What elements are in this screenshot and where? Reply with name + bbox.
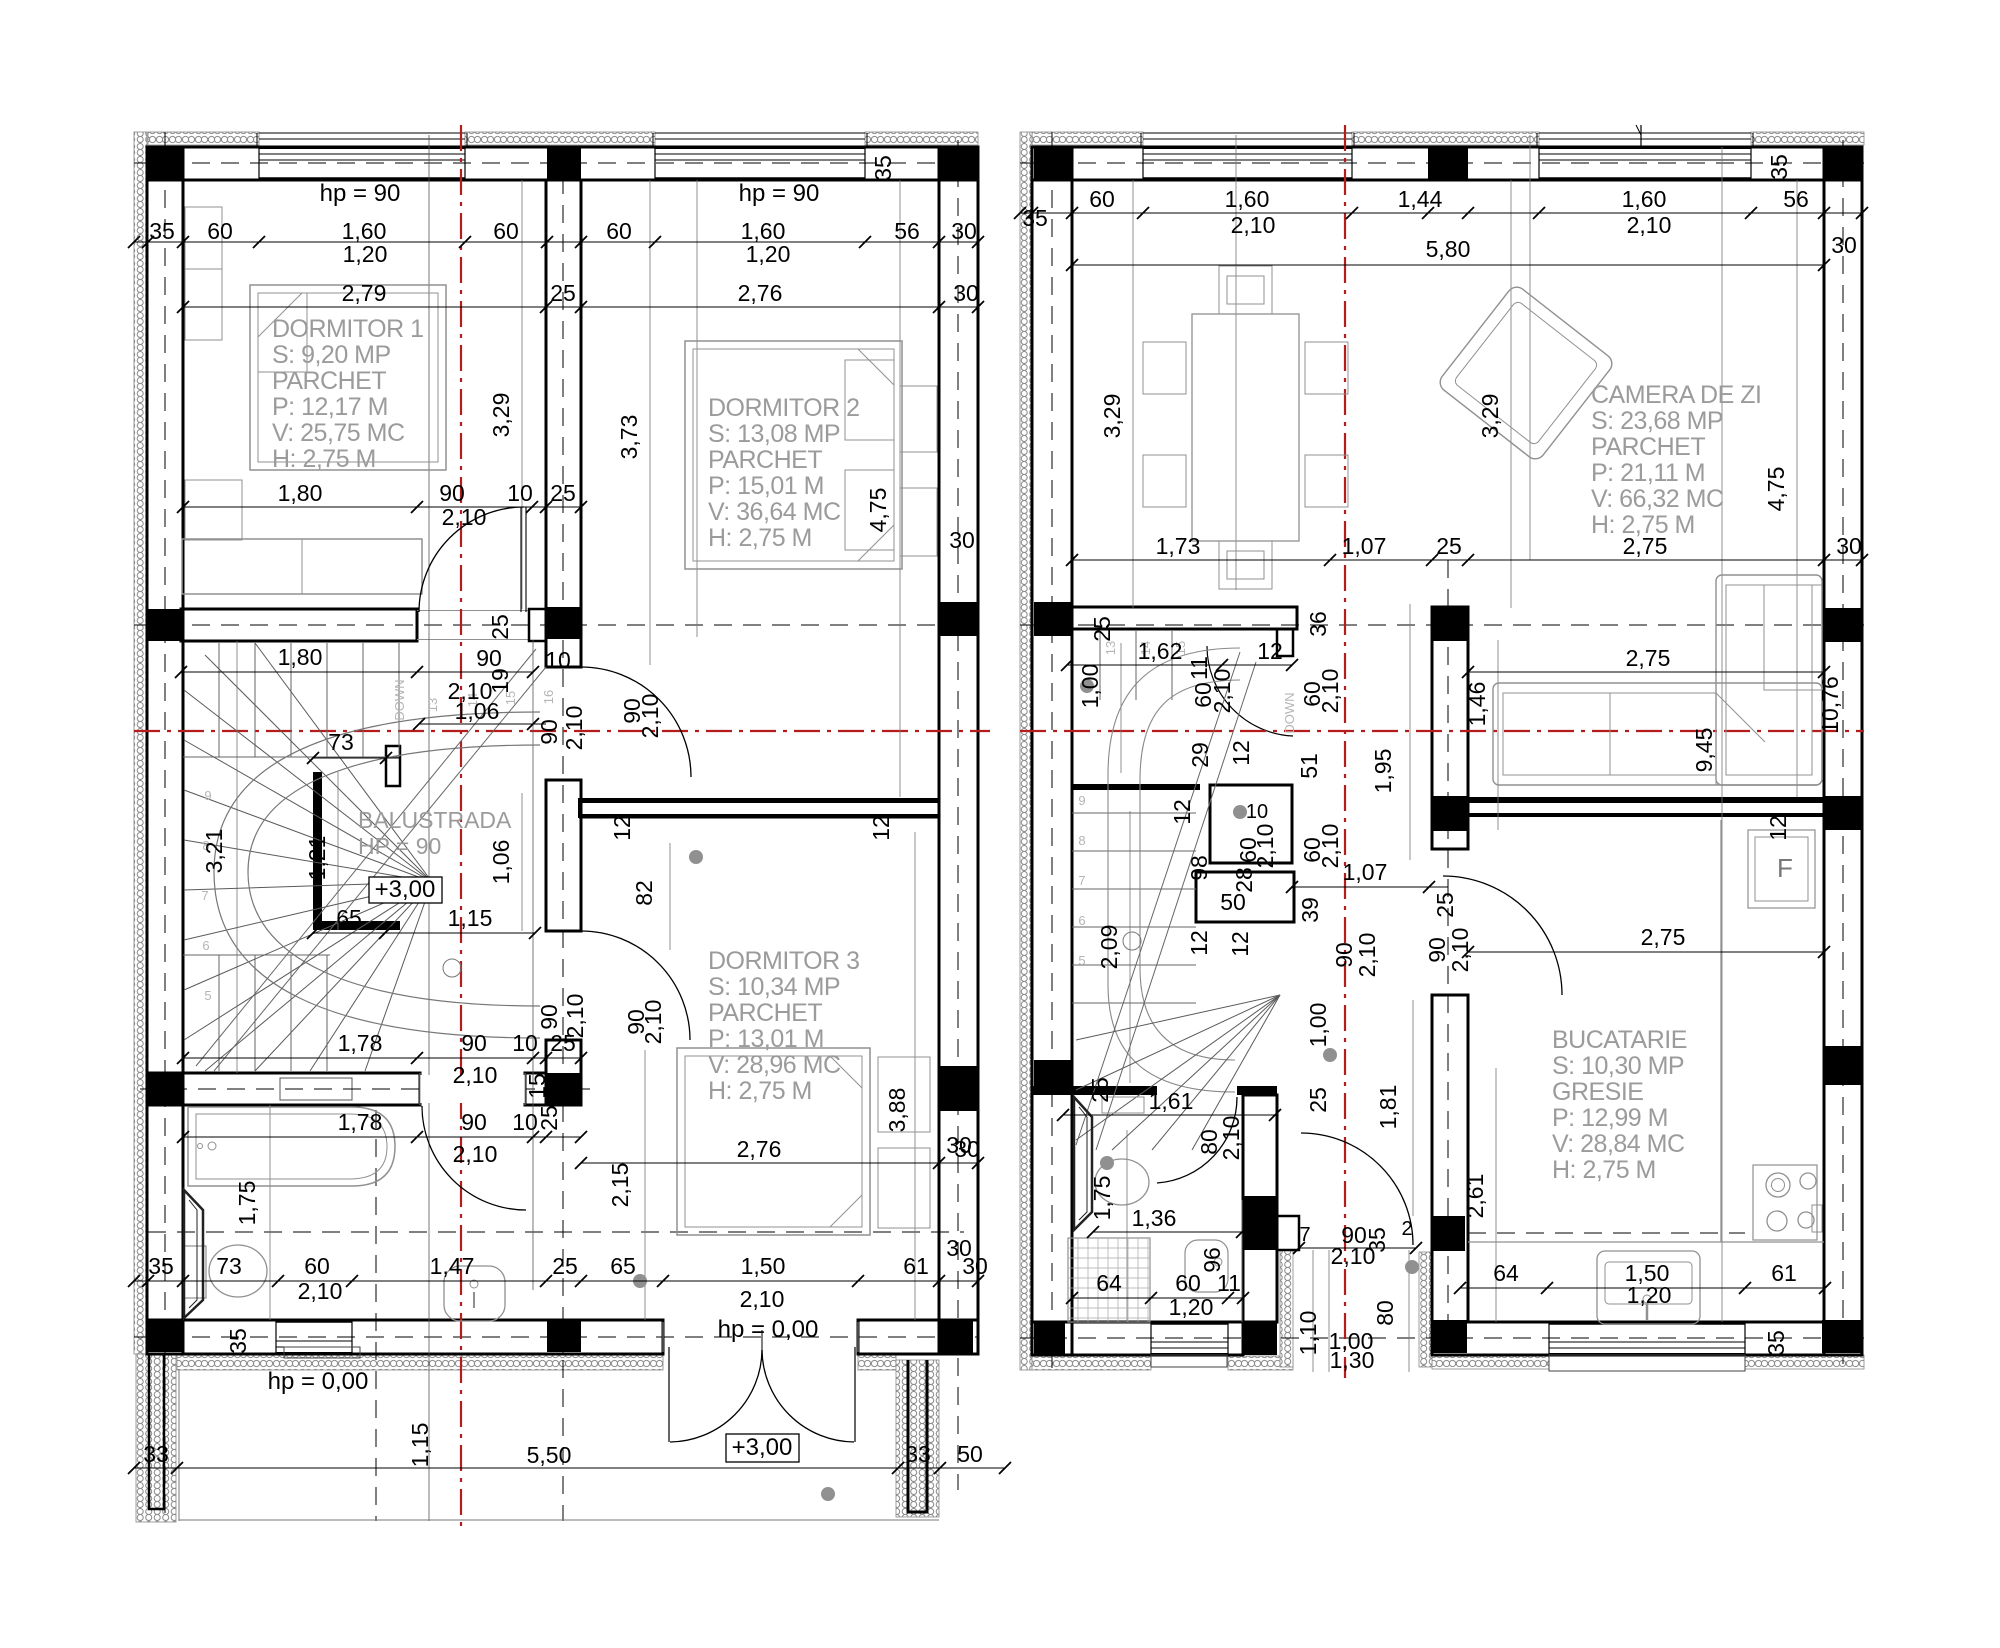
svg-text:1,75: 1,75 [234, 1181, 260, 1226]
svg-text:BALUSTRADA: BALUSTRADA [358, 807, 512, 833]
svg-text:PARCHET: PARCHET [708, 446, 822, 474]
svg-text:CAMERA DE ZI: CAMERA DE ZI [1591, 381, 1761, 409]
svg-text:1,81: 1,81 [1375, 1085, 1401, 1130]
svg-text:65: 65 [610, 1253, 636, 1279]
svg-text:1,80: 1,80 [278, 644, 323, 670]
svg-text:73: 73 [216, 1253, 242, 1279]
svg-text:H: 2,75 M: H: 2,75 M [1591, 511, 1695, 539]
svg-text:60: 60 [1175, 1270, 1201, 1296]
svg-text:DOWN: DOWN [392, 679, 407, 720]
svg-text:9,45: 9,45 [1691, 728, 1717, 773]
svg-text:S: 23,68 MP: S: 23,68 MP [1591, 407, 1723, 435]
svg-text:P: 12,99 M: P: 12,99 M [1552, 1104, 1668, 1132]
svg-text:11: 11 [1217, 1270, 1241, 1296]
svg-text:1,36: 1,36 [1132, 1205, 1177, 1231]
svg-text:19: 19 [487, 668, 513, 694]
svg-text:61: 61 [903, 1253, 929, 1279]
svg-text:64: 64 [1493, 1260, 1519, 1286]
svg-text:1,06: 1,06 [455, 698, 500, 724]
svg-text:90: 90 [461, 1030, 487, 1056]
svg-text:25: 25 [550, 480, 576, 506]
svg-text:25: 25 [1089, 616, 1115, 642]
svg-text:1,75: 1,75 [1089, 1176, 1115, 1221]
svg-text:90: 90 [476, 645, 502, 671]
svg-text:1,44: 1,44 [1398, 186, 1443, 212]
svg-text:1,60: 1,60 [1622, 186, 1667, 212]
svg-text:2,75: 2,75 [1626, 645, 1671, 671]
svg-text:25: 25 [1436, 533, 1462, 559]
svg-text:1,10: 1,10 [1295, 1311, 1321, 1356]
svg-text:3,21: 3,21 [201, 829, 227, 874]
svg-text:HP = 90: HP = 90 [358, 833, 441, 859]
svg-text:2,61: 2,61 [1462, 1174, 1488, 1219]
svg-text:H: 2,75 M: H: 2,75 M [272, 445, 376, 473]
svg-text:3,29: 3,29 [1477, 394, 1503, 439]
svg-text:1,07: 1,07 [1342, 533, 1387, 559]
svg-text:hp = 90: hp = 90 [320, 180, 401, 207]
svg-text:9: 9 [204, 788, 211, 803]
svg-text:25: 25 [550, 280, 576, 306]
svg-text:5: 5 [1078, 953, 1085, 968]
svg-text:90: 90 [536, 719, 562, 745]
svg-text:90: 90 [461, 1109, 487, 1135]
svg-text:12: 12 [1257, 638, 1283, 664]
svg-text:DORMITOR 2: DORMITOR 2 [708, 394, 860, 422]
svg-text:4,75: 4,75 [865, 488, 891, 533]
svg-text:30: 30 [949, 527, 975, 553]
svg-text:1,07: 1,07 [1343, 859, 1388, 885]
svg-text:7: 7 [201, 888, 208, 903]
svg-text:1,95: 1,95 [1370, 749, 1396, 794]
svg-text:PARCHET: PARCHET [1591, 433, 1705, 461]
svg-text:35: 35 [1766, 154, 1792, 180]
svg-text:2,10: 2,10 [1317, 669, 1343, 714]
svg-text:2,10: 2,10 [637, 694, 663, 739]
svg-text:2,10: 2,10 [1354, 933, 1380, 978]
svg-text:1,00: 1,00 [1077, 664, 1103, 709]
svg-text:2,10: 2,10 [1252, 824, 1278, 869]
svg-text:P: 15,01 M: P: 15,01 M [708, 472, 824, 500]
svg-text:5: 5 [204, 988, 211, 1003]
svg-text:36: 36 [1305, 611, 1331, 637]
svg-text:10: 10 [512, 1109, 538, 1135]
svg-text:2,10: 2,10 [640, 1000, 666, 1045]
svg-text:56: 56 [894, 218, 920, 244]
svg-text:2,10: 2,10 [453, 1141, 498, 1167]
svg-text:25: 25 [552, 1253, 578, 1279]
svg-text:V: 28,96 MC: V: 28,96 MC [708, 1051, 841, 1079]
svg-text:V: 66,32 MC: V: 66,32 MC [1591, 485, 1724, 513]
svg-text:P: 12,17 M: P: 12,17 M [272, 393, 388, 421]
svg-text:6: 6 [202, 938, 209, 953]
svg-text:H: 2,75 M: H: 2,75 M [708, 524, 812, 552]
svg-text:64: 64 [1096, 1270, 1122, 1296]
svg-text:2,10: 2,10 [1447, 928, 1473, 973]
svg-text:2,10: 2,10 [1331, 1243, 1376, 1269]
svg-text:12: 12 [1227, 931, 1253, 957]
svg-text:35: 35 [1763, 1330, 1789, 1356]
svg-text:V: 28,84 MC: V: 28,84 MC [1552, 1130, 1685, 1158]
svg-text:P: 21,11 M: P: 21,11 M [1591, 459, 1705, 487]
svg-text:33: 33 [905, 1441, 931, 1467]
svg-text:2,10: 2,10 [1209, 669, 1235, 714]
svg-text:DOWN: DOWN [1282, 692, 1297, 733]
svg-text:1,80: 1,80 [278, 480, 323, 506]
svg-text:P: 13,01 M: P: 13,01 M [708, 1025, 824, 1053]
svg-text:DORMITOR 3: DORMITOR 3 [708, 947, 860, 975]
svg-text:73: 73 [328, 729, 354, 755]
svg-text:50: 50 [1220, 889, 1246, 915]
svg-text:PARCHET: PARCHET [708, 999, 822, 1027]
svg-text:60: 60 [207, 218, 233, 244]
svg-text:3,29: 3,29 [1099, 394, 1125, 439]
svg-text:5,50: 5,50 [527, 1442, 572, 1468]
svg-text:3,88: 3,88 [884, 1088, 910, 1133]
svg-text:39: 39 [1297, 897, 1323, 923]
svg-text:98: 98 [1186, 855, 1212, 881]
svg-text:1,20: 1,20 [343, 241, 388, 267]
svg-text:25: 25 [1432, 892, 1458, 918]
svg-text:35: 35 [870, 155, 896, 181]
svg-text:10: 10 [545, 647, 571, 673]
svg-text:2,10: 2,10 [453, 1062, 498, 1088]
svg-text:GRESIE: GRESIE [1552, 1078, 1643, 1106]
svg-text:2,75: 2,75 [1641, 924, 1686, 950]
svg-text:12: 12 [1186, 930, 1212, 956]
svg-text:2,10: 2,10 [298, 1278, 343, 1304]
svg-text:1,15: 1,15 [407, 1423, 433, 1468]
svg-text:5,80: 5,80 [1426, 236, 1471, 262]
svg-text:6: 6 [1078, 913, 1085, 928]
svg-text:1,60: 1,60 [1225, 186, 1270, 212]
svg-text:61: 61 [1771, 1260, 1797, 1286]
svg-text:hp = 90: hp = 90 [739, 180, 820, 207]
svg-text:1,62: 1,62 [1138, 638, 1183, 664]
svg-text:S: 10,30 MP: S: 10,30 MP [1552, 1052, 1684, 1080]
svg-text:1,20: 1,20 [1627, 1282, 1672, 1308]
svg-text:35: 35 [148, 1253, 174, 1279]
svg-text:1,61: 1,61 [1149, 1088, 1194, 1114]
svg-text:1,21: 1,21 [304, 836, 330, 881]
svg-text:PARCHET: PARCHET [272, 367, 386, 395]
svg-text:25: 25 [536, 1105, 562, 1131]
svg-text:2,76: 2,76 [737, 1136, 782, 1162]
svg-text:12: 12 [868, 815, 894, 841]
svg-text:60: 60 [493, 218, 519, 244]
svg-text:13: 13 [425, 698, 440, 712]
svg-text:25: 25 [1087, 1077, 1113, 1103]
svg-text:60: 60 [1089, 186, 1115, 212]
svg-text:2: 2 [1401, 1218, 1412, 1240]
svg-text:35: 35 [149, 218, 175, 244]
svg-text:3,73: 3,73 [616, 415, 642, 460]
svg-text:2,10: 2,10 [1627, 212, 1672, 238]
svg-text:1,46: 1,46 [1464, 682, 1490, 727]
svg-text:10: 10 [507, 480, 533, 506]
svg-text:3,29: 3,29 [488, 393, 514, 438]
svg-text:H: 2,75 M: H: 2,75 M [708, 1077, 812, 1105]
svg-text:DORMITOR 1: DORMITOR 1 [272, 315, 424, 343]
svg-text:25: 25 [1305, 1087, 1331, 1113]
svg-text:13: 13 [1103, 641, 1118, 655]
svg-text:1,15: 1,15 [448, 905, 493, 931]
svg-text:12: 12 [1169, 799, 1195, 825]
svg-text:15: 15 [524, 1073, 550, 1099]
svg-text:11: 11 [1186, 656, 1212, 680]
svg-text:BUCATARIE: BUCATARIE [1552, 1026, 1687, 1054]
svg-text:60: 60 [304, 1253, 330, 1279]
svg-text:35: 35 [1022, 205, 1048, 231]
svg-text:hp = 0,00: hp = 0,00 [268, 1368, 369, 1395]
svg-text:V: 25,75 MC: V: 25,75 MC [272, 419, 405, 447]
svg-text:60: 60 [606, 218, 632, 244]
svg-text:56: 56 [1783, 186, 1809, 212]
svg-text:S: 10,34 MP: S: 10,34 MP [708, 973, 840, 1001]
svg-text:65: 65 [336, 905, 362, 931]
svg-text:1,20: 1,20 [1169, 1294, 1214, 1320]
svg-text:1,50: 1,50 [741, 1253, 786, 1279]
svg-text:82: 82 [631, 880, 657, 906]
svg-text:9: 9 [1078, 793, 1085, 808]
svg-text:30: 30 [1836, 533, 1862, 559]
svg-text:1,20: 1,20 [746, 241, 791, 267]
svg-text:+3,00: +3,00 [375, 876, 436, 903]
svg-text:8: 8 [1078, 833, 1085, 848]
svg-text:1,06: 1,06 [488, 840, 514, 885]
svg-text:7: 7 [1078, 873, 1085, 888]
svg-text:12: 12 [1765, 815, 1791, 841]
svg-text:90: 90 [536, 1004, 562, 1030]
svg-text:2,10: 2,10 [1317, 824, 1343, 869]
svg-text:30: 30 [951, 218, 977, 244]
svg-text:30: 30 [953, 280, 979, 306]
svg-text:10: 10 [512, 1030, 538, 1056]
svg-text:29: 29 [1187, 742, 1213, 768]
svg-text:2,10: 2,10 [561, 706, 587, 751]
svg-text:30: 30 [1831, 232, 1857, 258]
svg-text:2,10: 2,10 [1231, 212, 1276, 238]
svg-text:1,30: 1,30 [1330, 1347, 1375, 1373]
svg-text:30: 30 [946, 1235, 972, 1261]
svg-text:4,75: 4,75 [1763, 467, 1789, 512]
svg-text:2,09: 2,09 [1096, 925, 1122, 970]
svg-text:90: 90 [439, 480, 465, 506]
svg-text:80: 80 [1372, 1300, 1398, 1326]
svg-text:S: 9,20 MP: S: 9,20 MP [272, 341, 391, 369]
svg-text:50: 50 [957, 1441, 983, 1467]
svg-text:30: 30 [946, 1132, 972, 1158]
svg-text:F: F [1777, 853, 1793, 883]
svg-text:12: 12 [609, 815, 635, 841]
svg-text:10: 10 [1246, 801, 1268, 823]
svg-text:1,47: 1,47 [430, 1253, 475, 1279]
svg-text:2,10: 2,10 [740, 1286, 785, 1312]
svg-text:2,10: 2,10 [442, 504, 487, 530]
svg-text:hp = 0,00: hp = 0,00 [718, 1316, 819, 1343]
svg-text:S: 13,08 MP: S: 13,08 MP [708, 420, 840, 448]
svg-text:51: 51 [1296, 753, 1322, 779]
svg-text:25: 25 [487, 614, 513, 640]
svg-text:33: 33 [143, 1441, 169, 1467]
svg-text:10,76: 10,76 [1817, 676, 1843, 734]
svg-text:16: 16 [541, 690, 556, 704]
svg-text:1,00: 1,00 [1305, 1003, 1331, 1048]
svg-text:1,78: 1,78 [338, 1030, 383, 1056]
svg-text:96: 96 [1199, 1247, 1225, 1273]
svg-text:2,79: 2,79 [342, 280, 387, 306]
svg-text:H: 2,75 M: H: 2,75 M [1552, 1156, 1656, 1184]
svg-text:+3,00: +3,00 [732, 1434, 793, 1461]
svg-text:35: 35 [225, 1328, 251, 1354]
svg-text:2,76: 2,76 [738, 280, 783, 306]
svg-text:2,10: 2,10 [1218, 1116, 1244, 1161]
svg-text:12: 12 [1228, 740, 1254, 766]
svg-text:1,73: 1,73 [1156, 533, 1201, 559]
svg-text:2,10: 2,10 [562, 994, 588, 1039]
svg-text:1,78: 1,78 [338, 1109, 383, 1135]
svg-text:2,15: 2,15 [607, 1163, 633, 1208]
svg-text:V: 36,64 MC: V: 36,64 MC [708, 498, 841, 526]
